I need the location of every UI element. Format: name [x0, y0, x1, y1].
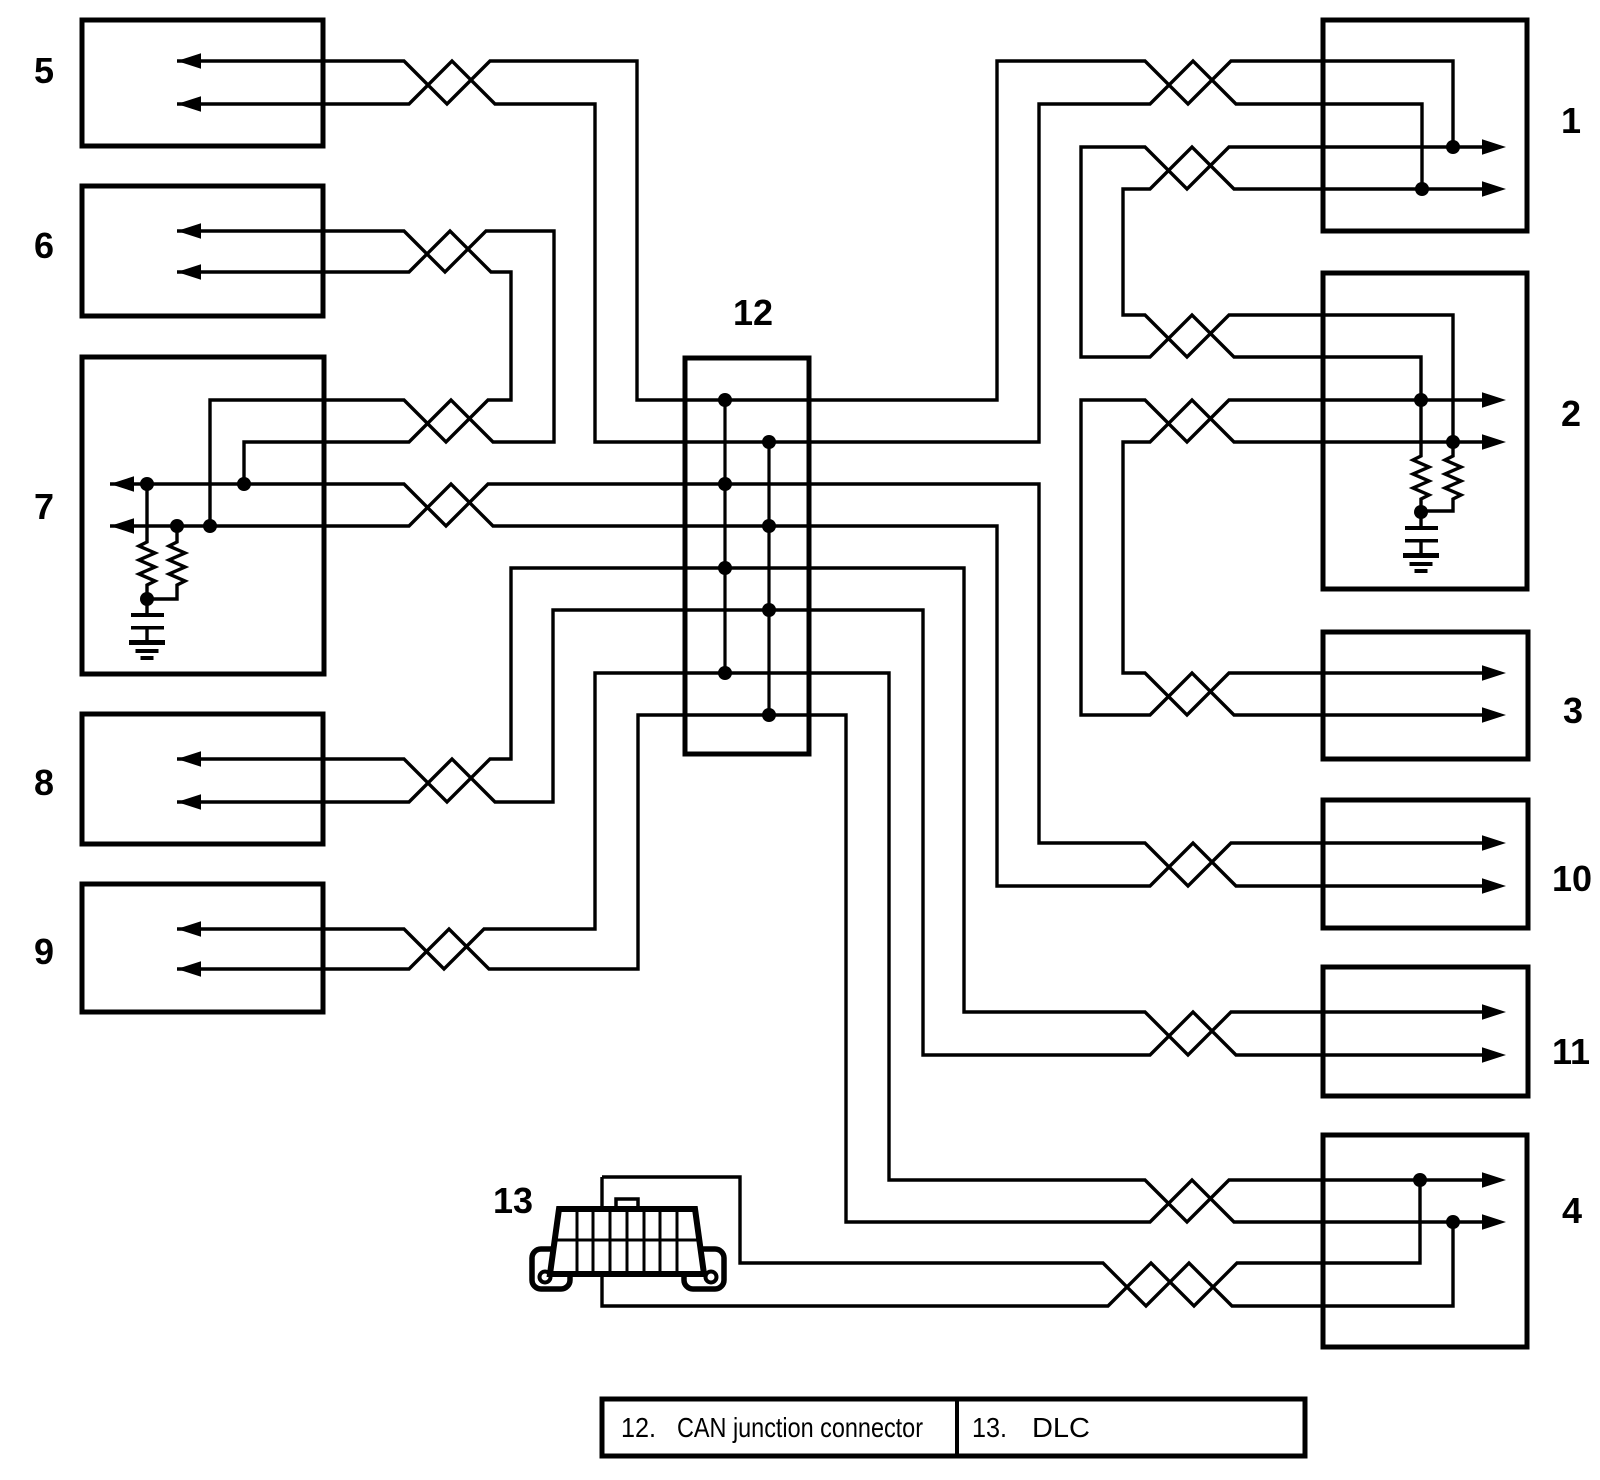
arrow into box11 upper — [1482, 1004, 1506, 1019]
ground symbol in box7 — [129, 599, 165, 660]
wire net: box1 arrow y147 - link down - box2 top pair y357 — [1081, 147, 1500, 400]
arrow into box2 CAN-L — [1482, 434, 1506, 449]
ECU box 5 — [82, 20, 323, 146]
svg-text:5: 5 — [34, 50, 54, 91]
wire net A: box5 upper - junction left bus - box1 upper — [177, 61, 1453, 400]
svg-text:12: 12 — [733, 292, 773, 333]
wire net: DLC outer - twisted pair - box4 corner to dot y1180 — [602, 1177, 1420, 1306]
wire net: DLC inner loop - twisted pair - box4 corner to dot y1222 — [602, 1177, 1453, 1306]
node box2 L — [1446, 435, 1460, 449]
ECU box 8 — [82, 714, 323, 844]
junction node R7 on bus — [718, 666, 732, 680]
node box7 L-right — [203, 519, 217, 533]
svg-text:10: 10 — [1552, 858, 1592, 899]
arrow in box4 lower — [1482, 1214, 1506, 1229]
arrow into box2 CAN-H — [1482, 392, 1506, 407]
arrow into box11 lower — [1482, 1047, 1506, 1062]
node box7 H-left — [140, 477, 154, 491]
junction node R5 on bus — [718, 561, 732, 575]
arrow in box1 upper — [1482, 139, 1506, 154]
arrow into box7 CAN-H — [110, 476, 134, 491]
svg-text:8: 8 — [34, 762, 54, 803]
arrow into box8 lower — [177, 794, 201, 809]
junction bus bar right (CAN-L) — [767, 442, 770, 715]
node box2 resistor common — [1414, 505, 1428, 519]
arrow into box9 lower — [177, 961, 201, 976]
arrow into box7 CAN-L — [110, 518, 134, 533]
svg-text:7: 7 — [34, 486, 54, 527]
svg-text:CAN junction connector: CAN junction connector — [677, 1412, 923, 1443]
wire net: box2 bus L (arrow y442) down to box3 upper arrow — [1123, 400, 1500, 715]
junction node R8 on bus — [762, 708, 776, 722]
wire net: box8 upper - junction left bus - box11 upper — [177, 568, 1500, 1055]
wire net CAN-H bus: box7 - junction left bus - box10 upper — [110, 484, 1500, 886]
CAN junction connector box 12 — [685, 358, 809, 754]
arrow into box3 upper — [1482, 665, 1506, 680]
svg-text:13.: 13. — [972, 1412, 1007, 1443]
arrow in box4 upper — [1482, 1172, 1506, 1187]
svg-text:4: 4 — [1562, 1190, 1582, 1231]
node box7 L-left — [170, 519, 184, 533]
terminating resistor box2 Rd — [1421, 442, 1461, 511]
wire net: box9 lower - junction right bus - box4 lower — [177, 715, 1500, 1222]
svg-text:1: 1 — [1561, 100, 1581, 141]
ECU box 2 (with terminating resistors) — [1323, 273, 1527, 589]
wire net B: box5 lower - junction right bus - box1 lower — [177, 61, 1422, 442]
svg-text:9: 9 — [34, 931, 54, 972]
junction node R4 on bus — [762, 519, 776, 533]
arrow in box1 lower — [1482, 181, 1506, 196]
junction bus bar left (CAN-H) — [723, 400, 726, 673]
junction node R3 on bus — [718, 477, 732, 491]
terminating resistor box7 Ra — [139, 484, 155, 599]
terminating resistor box2 Rc — [1413, 400, 1429, 512]
ECU box 4 — [1323, 1135, 1527, 1347]
arrow into box5 upper — [177, 53, 201, 68]
legend table divider — [955, 1399, 959, 1456]
ECU box 6 — [82, 186, 323, 316]
node box4 lower — [1446, 1215, 1460, 1229]
arrow into box6 upper — [177, 223, 201, 238]
ECU box 10 — [1323, 800, 1528, 928]
DLC connector 13 drawing — [532, 1199, 724, 1289]
node box1 lower — [1415, 182, 1429, 196]
svg-text:6: 6 — [34, 225, 54, 266]
svg-text:13: 13 — [493, 1180, 533, 1221]
wire net CAN-L bus: box7 - junction right bus - box10 lower — [110, 484, 1500, 886]
wire net: box1 arrow y189 - link down - box2 top pair y315 — [1123, 147, 1500, 442]
junction node R1 on bus — [718, 393, 732, 407]
ECU box 11 — [1323, 967, 1528, 1096]
ECU box 3 — [1323, 632, 1528, 759]
node box7 resistor common — [140, 592, 154, 606]
wire net: box8 lower - junction right bus - box11 lower — [177, 610, 1500, 1055]
arrow into box3 lower — [1482, 707, 1506, 722]
wire net: box6 upper - twisted pairs - box7 pass-through (y442) — [177, 231, 554, 484]
node box4 upper — [1413, 1173, 1427, 1187]
arrow into box10 lower — [1482, 878, 1506, 893]
node box1 upper — [1446, 140, 1460, 154]
arrow into box6 lower — [177, 264, 201, 279]
junction node R2 on bus — [762, 435, 776, 449]
svg-text:2: 2 — [1561, 393, 1581, 434]
wire net: box9 upper - junction left bus - box4 upper — [177, 673, 1500, 1222]
ground symbol in box2 — [1403, 512, 1439, 573]
node box2 H — [1414, 393, 1428, 407]
ECU box 1 — [1323, 20, 1527, 231]
junction node R6 on bus — [762, 603, 776, 617]
svg-text:DLC: DLC — [1032, 1412, 1090, 1443]
arrow into box8 upper — [177, 751, 201, 766]
arrow into box5 lower — [177, 96, 201, 111]
ECU box 7 (with terminating resistors) — [82, 357, 324, 674]
wire net: box6 lower - twisted pairs - box7 pass-through (y400) — [177, 231, 511, 526]
terminating resistor box7 Rb — [147, 526, 185, 599]
arrow into box9 upper — [177, 921, 201, 936]
arrow into box10 upper — [1482, 835, 1506, 850]
svg-text:12.: 12. — [621, 1412, 656, 1443]
legend table frame — [602, 1399, 1305, 1456]
wire net: box2 bus H (arrow y400) down to box3 lower arrow — [1081, 400, 1500, 715]
node box7 H-right — [237, 477, 251, 491]
ECU box 9 — [82, 884, 323, 1012]
svg-text:3: 3 — [1563, 690, 1583, 731]
svg-text:11: 11 — [1552, 1031, 1590, 1072]
